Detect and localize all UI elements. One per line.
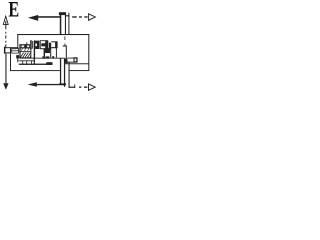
wheel mid band hatch strokes: [21, 49, 29, 51]
bevel stage axis line: [19, 44, 31, 45]
dark hatch blob right of output shaft: [65, 59, 68, 64]
bearing sleeve top line: [67, 57, 73, 60]
top dashed line: [72, 16, 77, 17]
bar 2: [31, 41, 34, 49]
bevel pinion dark blob: [35, 41, 39, 49]
top hollow arrow head (right): [89, 14, 96, 20]
vertical bar right of white pocket: [44, 49, 45, 59]
section trace dash-dot line: [5, 21, 6, 29]
boss bottom line: [69, 87, 76, 88]
housing bottom line left part: [10, 69, 60, 72]
mesh tick: [63, 45, 67, 46]
dark bar above lower line with notch: [42, 56, 49, 58]
small blob inside gear half: [52, 56, 54, 58]
bearing hatch block below box A: [45, 48, 51, 53]
inner horizontal line right part: [65, 62, 89, 65]
bearing box A dark right end: [45, 41, 48, 49]
input shaft step line: [66, 15, 69, 16]
view-direction hollow arrow (up): [3, 16, 8, 24]
long horizontal line (wheel bottom level): [19, 57, 65, 60]
axis cross tick: [25, 42, 28, 47]
input shaft right line: [68, 13, 69, 35]
background: [0, 0, 100, 93]
boss right tick: [73, 85, 76, 88]
left shaft end cap: [4, 47, 6, 54]
bottom solid left arrow line: [36, 84, 66, 85]
bearing box A inner mid bar: [41, 43, 47, 46]
down arrow stem: [5, 54, 6, 84]
lower shaft thick band: [19, 64, 48, 65]
box B dark right end: [55, 42, 58, 48]
input shaft middle line: [65, 13, 66, 35]
wheel upper band dark with white holes: [19, 44, 31, 48]
lower gear half left side: [50, 48, 51, 58]
output shaft left side: [60, 59, 61, 85]
wheel hatch strokes: [20, 53, 31, 58]
output shaft bottom cap: [59, 83, 66, 85]
wheel hub vertical: [25, 44, 26, 48]
housing right wall: [88, 34, 89, 71]
lower shaft line upper: [19, 59, 35, 62]
hatched wheel outline: [19, 44, 31, 58]
svg-text:E: E: [8, 0, 19, 22]
down arrow solid head: [3, 83, 8, 90]
thick bar: [49, 43, 51, 50]
input shaft cap: [59, 12, 66, 15]
left bearing box outline: [11, 48, 19, 53]
top solid left arrow line: [37, 16, 60, 18]
housing left lower wall: [10, 47, 11, 71]
wheel inner line 1: [19, 47, 31, 48]
housing left upper wall: [17, 34, 18, 48]
bearing box A outline: [40, 40, 48, 49]
housing top line: [17, 34, 89, 35]
bottom solid left arrow head: [28, 82, 37, 87]
inner wall segment: [17, 55, 18, 62]
box B bottom: [51, 47, 57, 48]
housing bottom line right part: [69, 69, 89, 72]
wheel inner line 2: [19, 50, 31, 53]
small bearing ring right of block: [74, 57, 78, 62]
dark bearing block left: [16, 55, 19, 58]
dark block at end of lower band: [46, 62, 52, 65]
input shaft left side: [60, 13, 62, 35]
lower shaft ticks: [21, 60, 24, 65]
bearing sleeve bottom line: [67, 61, 73, 64]
lower gear half right side: [56, 48, 57, 58]
bevel wheel rim bar: [30, 40, 32, 49]
input shaft axis dashes below housing top: [64, 36, 67, 40]
gear stack vertical bar: [34, 40, 35, 58]
output shaft middle line: [64, 59, 65, 87]
left bearing box midline: [11, 49, 19, 52]
top solid left arrow head: [28, 15, 38, 21]
output shaft right line: [69, 62, 70, 88]
gear stack bar lower extension: [34, 58, 35, 65]
left shaft bottom line: [5, 52, 12, 53]
bottom hollow arrow head (right): [89, 84, 96, 91]
bottom dashed line: [79, 87, 81, 88]
left shaft top line / housing step: [5, 47, 19, 48]
vertical line above dark block: [66, 46, 67, 58]
box B top: [51, 41, 57, 42]
